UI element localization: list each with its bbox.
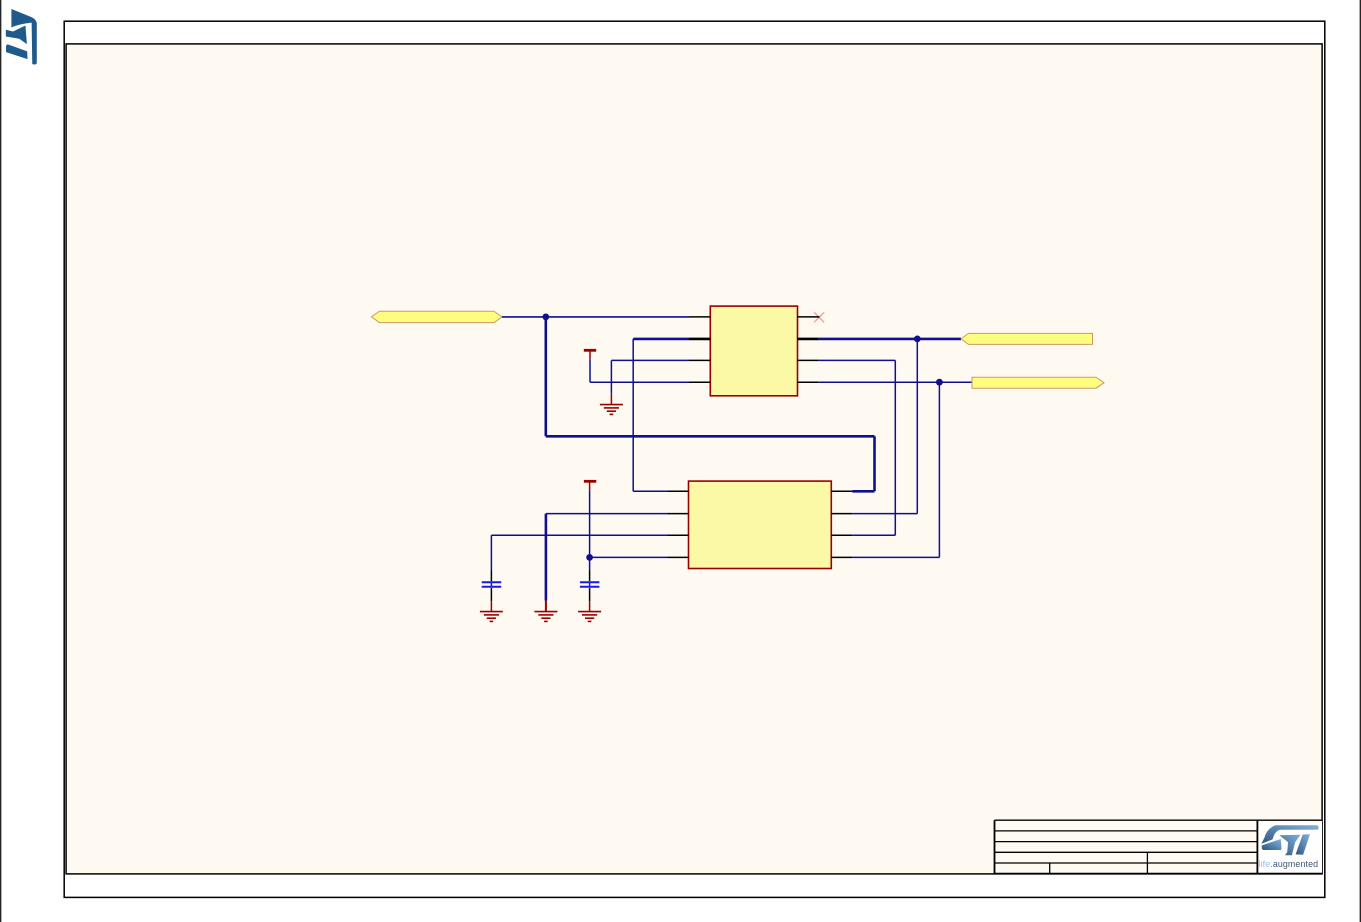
life.augmented text bbox=[1259, 859, 1319, 869]
wire U1 pin3 left bbox=[611, 359, 689, 361]
wire U2 right pin2 to x917 bbox=[852, 513, 917, 515]
U1 right pin 2 stub (thick) bbox=[798, 338, 819, 341]
page edge line left bbox=[0, 0, 2, 922]
junction C dot bbox=[936, 379, 943, 386]
title block lines bbox=[995, 820, 1323, 873]
capacitor C2 top lead bbox=[589, 557, 591, 570]
wire U2 right pin3 to x895 bbox=[852, 534, 895, 536]
IC U1 body bbox=[710, 306, 797, 396]
U2 left pin 4 stub bbox=[668, 556, 689, 558]
junction B dot bbox=[914, 336, 921, 343]
wire junction C down to U2 right pin4 bbox=[938, 382, 940, 557]
U1 left pin 2 stub (bus, thick) bbox=[689, 338, 710, 341]
wire vertical x895 down to U2 right pin3 bbox=[894, 360, 896, 535]
U2 right pin 2 stub bbox=[831, 513, 852, 515]
wire vertical x874 down to U2 pin out1 (thick) bbox=[873, 436, 876, 491]
wire horizontal y436 (thick) bbox=[546, 435, 875, 438]
wire C1 to U2 left pin3 bbox=[491, 534, 667, 536]
ground G3 bbox=[480, 612, 503, 622]
wire junction A down (thick) bbox=[544, 317, 547, 436]
U2 right pin 1 stub bbox=[831, 490, 852, 492]
U1 right pin 1 stub (no connect) bbox=[798, 316, 820, 318]
ground G1 stem bbox=[610, 394, 612, 405]
power tap T1 bbox=[584, 349, 596, 352]
wire port IN to junction A to U1 pin1 bbox=[502, 316, 689, 318]
ST logo (title block) bbox=[1262, 825, 1319, 855]
ST logo (rotated, top-left corner) bbox=[6, 9, 37, 65]
wire junction D to U2 left pin4 bbox=[590, 556, 668, 558]
page edge line right bbox=[1359, 0, 1361, 922]
wire into U2 left pin1 bbox=[633, 490, 667, 492]
capacitor C2 bbox=[580, 582, 600, 587]
U2 left pin 3 stub bbox=[668, 534, 689, 536]
capacitor C1 top lead bbox=[490, 571, 492, 582]
wire T1 down to U1 pin4 bbox=[589, 360, 591, 382]
capacitor C1 bottom lead bbox=[490, 588, 492, 601]
U1 left pin 3 stub bbox=[689, 359, 710, 361]
wire T2 down to junction D bbox=[589, 491, 591, 558]
wire into U2 right pin1 (thick) bbox=[852, 490, 874, 493]
thick vertical x546 to ground G2 bbox=[545, 514, 548, 601]
title block logo cell (white) bbox=[1257, 820, 1322, 873]
wire U2 right pin4 to x939 bbox=[852, 556, 939, 558]
wire junction B down to U2 right pin2 bbox=[916, 339, 918, 514]
ground G2 bbox=[534, 612, 557, 622]
net port OUT2 (arrow pointing right) bbox=[972, 377, 1104, 388]
capacitor C2 bottom lead bbox=[589, 588, 591, 601]
wire U1 pin4 to port OUT2 bbox=[819, 381, 972, 383]
wire x611 down to ground G1 bbox=[610, 360, 612, 393]
wire U1 pin2 left (thick) bbox=[633, 338, 689, 341]
no-connect X on U1 right pin 1 bbox=[814, 312, 824, 322]
U1 left pin 1 stub bbox=[689, 316, 710, 318]
ground G1 bbox=[600, 405, 623, 415]
U2 left pin 2 stub bbox=[668, 513, 689, 515]
junction D dot bbox=[586, 554, 593, 561]
net port IN (left, bidirectional arrow) bbox=[372, 311, 503, 322]
wire U1 pin4 left bbox=[590, 381, 689, 383]
wire GND net to U2 left pin2 bbox=[546, 513, 668, 515]
power tap T2 bbox=[584, 480, 596, 483]
wire U1 pin3 right to corner bbox=[819, 359, 896, 361]
svg-text:life.augmented: life.augmented bbox=[1259, 859, 1319, 869]
wire U1 pin2 to port OUT1 (thick) bbox=[819, 338, 961, 341]
U1 left pin 4 stub bbox=[689, 381, 710, 383]
wire vertical x633 down to U2 pin1 bbox=[632, 339, 634, 491]
ground G4 bbox=[578, 612, 601, 622]
U2 right pin 3 stub bbox=[831, 534, 852, 536]
wire down to C1 bbox=[490, 535, 492, 570]
IC U2 body bbox=[689, 481, 832, 568]
U2 left pin 1 stub bbox=[668, 490, 689, 492]
junction A dot bbox=[542, 314, 549, 321]
U1 right pin 3 stub bbox=[798, 359, 819, 361]
ground G2 stem bbox=[545, 601, 547, 612]
net port OUT1 (arrow pointing left) bbox=[961, 333, 1093, 344]
U2 right pin 4 stub bbox=[831, 556, 852, 558]
capacitor C1 bbox=[482, 582, 502, 587]
U1 right pin 4 stub bbox=[798, 381, 819, 383]
